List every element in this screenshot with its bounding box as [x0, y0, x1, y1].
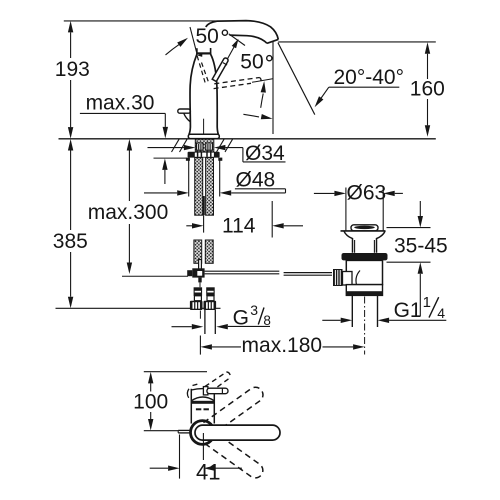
pop-up waste plug cap [351, 225, 378, 231]
top view: spout bar [195, 425, 280, 440]
mounting deck line [59, 138, 436, 140]
bottom reference line (hose end plane) [56, 307, 221, 309]
svg-text:4: 4 [437, 305, 445, 321]
svg-text:100: 100 [133, 391, 168, 414]
extension line top (spout height reference) [64, 20, 230, 22]
top view: mounting ring [191, 421, 215, 445]
faucet body right edge [211, 54, 219, 134]
waste flange profile [344, 231, 353, 253]
knob connector [343, 272, 353, 286]
label G3/8 [172, 326, 192, 328]
tee connector [187, 270, 192, 276]
threaded tails upper segment [195, 158, 203, 216]
top view: dome arc [191, 397, 214, 401]
supply hose slots in shank [197, 143, 203, 150]
threaded shank through deck [195, 139, 214, 152]
svg-text:Ø34: Ø34 [245, 142, 285, 165]
pop-up rod knob on body [178, 109, 191, 113]
svg-text:20°-40°: 20°-40° [334, 66, 405, 89]
svg-text:385: 385 [53, 230, 88, 253]
faucet neck [196, 48, 198, 54]
svg-text:160: 160 [410, 78, 445, 101]
rubber seal [342, 253, 388, 260]
top view: detail dashes [196, 408, 209, 410]
svg-text:50: 50 [196, 25, 219, 48]
dimension 100 [144, 371, 207, 373]
waste lower hex [346, 285, 382, 296]
label G1 1/4 [322, 319, 340, 321]
svg-text:8: 8 [263, 313, 271, 328]
top view: body sides [190, 389, 192, 424]
rod left extension line [122, 275, 188, 277]
dimension max.300 [128, 151, 130, 263]
tailpipe [351, 295, 353, 327]
label D34 [148, 147, 184, 149]
dimension max.30 label and arrows [80, 112, 165, 114]
spout inner curve [230, 35, 268, 43]
pop-up rod between tails [203, 196, 205, 215]
dimension 41 [179, 435, 181, 479]
dimension 193 [70, 32, 72, 127]
dimension 160 [427, 54, 429, 126]
faucet body left edge [189, 54, 197, 134]
mounting washer / lock nut [188, 152, 220, 158]
pop-up rod stub to tee [199, 260, 202, 270]
faucet spout arch [206, 21, 278, 40]
svg-text:1: 1 [423, 294, 431, 311]
waste body [346, 260, 382, 284]
hose fitting right [206, 287, 215, 296]
top view: handle pin base [203, 387, 208, 395]
dimension 114 [186, 225, 192, 227]
top view: black band [191, 401, 214, 404]
drain centerline [364, 297, 366, 355]
top view: handle pin [207, 388, 228, 394]
svg-text:193: 193 [55, 58, 90, 81]
svg-text:41: 41 [196, 459, 220, 484]
top view: cap left arc [187, 389, 189, 398]
handle axis tilted line [190, 27, 197, 52]
svg-text:50: 50 [240, 51, 263, 74]
svg-text:Ø63: Ø63 [347, 182, 387, 205]
spout outlet face [267, 39, 278, 43]
svg-text:G: G [233, 306, 249, 329]
svg-text:G1: G1 [394, 299, 422, 322]
top view: handle lever ghost dashes [193, 372, 231, 392]
deck hatching [172, 139, 233, 152]
vertical reference below spout tip [272, 42, 274, 134]
handle horizontal ghost (dashed) [214, 78, 259, 84]
extension line spout outlet level [278, 41, 436, 43]
water stream direction line [278, 43, 315, 115]
washer side tabs [186, 158, 190, 161]
handle lever (solid) [212, 58, 228, 81]
svg-text:Ø48: Ø48 [236, 168, 276, 191]
dimension 385 [70, 151, 72, 297]
G3/8 connection pipe [204, 310, 206, 334]
label D48 [188, 159, 190, 197]
knurled rod knob [333, 269, 343, 286]
top view: rod knob stub [178, 429, 189, 431]
top view: swivel ghost spout lower (dashed) [203, 430, 265, 481]
svg-text:max.180: max.180 [242, 334, 323, 357]
top view: swivel ghost spout upper (dashed) [203, 384, 265, 435]
dimension D63 [314, 192, 335, 194]
svg-text:114: 114 [222, 215, 256, 238]
svg-text:3: 3 [250, 302, 258, 318]
svg-text:max.300: max.300 [88, 201, 169, 224]
dimension max.180 [199, 311, 201, 319]
svg-text:35-45: 35-45 [394, 235, 448, 258]
svg-text:max.30: max.30 [86, 91, 155, 114]
faucet centerline [203, 119, 205, 151]
waste flange top [341, 230, 386, 232]
threaded tails lower segment [194, 240, 202, 263]
horizontal pull rod [205, 271, 332, 275]
neck joint line [196, 52, 211, 54]
hose fitting left [194, 287, 203, 296]
base plate [188, 134, 219, 138]
dimension 35-45 [387, 227, 431, 229]
top view: body top edge [191, 389, 214, 390]
